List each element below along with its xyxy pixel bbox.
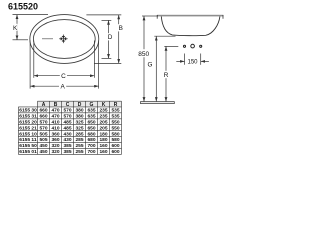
tap hole right <box>200 45 202 47</box>
svg-text:485: 485 <box>63 125 71 131</box>
svg-text:6155 11: 6155 11 <box>19 137 37 143</box>
inner basin ellipse (plan view) <box>33 20 95 59</box>
dimension C extension lines <box>34 41 95 78</box>
label A <box>59 83 66 91</box>
850 dimension top extension <box>142 15 158 17</box>
svg-text:6155 30: 6155 30 <box>19 108 37 114</box>
dimension K line <box>16 15 18 40</box>
svg-text:285: 285 <box>75 137 83 143</box>
svg-text:R: R <box>164 72 169 79</box>
svg-text:485: 485 <box>63 119 71 125</box>
floor bar <box>141 102 175 104</box>
svg-text:A: A <box>42 102 46 108</box>
G dimension line <box>155 36 157 101</box>
outer rim ellipse (plan view) <box>30 15 99 64</box>
table row 6: 6155 11 <box>19 137 120 143</box>
svg-text:K: K <box>13 25 18 32</box>
label C <box>60 72 67 80</box>
svg-text:385: 385 <box>63 143 71 149</box>
dimension D extension lines <box>102 20 112 58</box>
svg-text:6155 21: 6155 21 <box>19 125 37 131</box>
svg-text:320: 320 <box>51 149 59 155</box>
dimension B extension lines <box>86 15 121 64</box>
label 850 <box>136 49 152 58</box>
svg-text:G: G <box>90 102 94 108</box>
dimension C line <box>34 75 95 77</box>
svg-text:660: 660 <box>39 108 47 114</box>
svg-text:150: 150 <box>187 59 198 65</box>
svg-text:570: 570 <box>39 125 47 131</box>
tap hole left <box>183 45 185 47</box>
svg-text:180: 180 <box>99 131 107 137</box>
label 150 <box>187 59 198 65</box>
svg-text:6155 50: 6155 50 <box>19 143 37 149</box>
table row 7: 6155 50 <box>19 143 120 149</box>
svg-text:380: 380 <box>75 108 83 114</box>
svg-text:325: 325 <box>75 119 83 125</box>
svg-text:660: 660 <box>39 113 47 119</box>
countertop (side view) <box>157 15 223 19</box>
svg-text:160: 160 <box>99 149 107 155</box>
svg-text:680: 680 <box>87 137 95 143</box>
svg-text:180: 180 <box>99 137 107 143</box>
svg-text:D: D <box>108 34 113 41</box>
svg-text:680: 680 <box>87 131 95 137</box>
850 dimension line <box>143 16 145 102</box>
centerline dash left of drain <box>42 38 53 40</box>
svg-text:615520: 615520 <box>8 2 38 12</box>
svg-text:570: 570 <box>63 113 71 119</box>
svg-text:6155 10: 6155 10 <box>19 131 37 137</box>
R dimension line <box>165 46 167 101</box>
svg-text:600: 600 <box>111 149 119 155</box>
svg-text:6155 20: 6155 20 <box>19 119 37 125</box>
svg-text:285: 285 <box>75 131 83 137</box>
svg-text:380: 380 <box>75 113 83 119</box>
svg-text:255: 255 <box>75 143 83 149</box>
label R <box>163 71 170 79</box>
svg-text:C: C <box>61 73 66 80</box>
150 dimension arrows <box>176 60 209 62</box>
svg-text:410: 410 <box>51 119 59 125</box>
svg-text:430: 430 <box>63 131 71 137</box>
table row 8: 6155 01 <box>19 149 120 155</box>
title 615520 <box>8 2 38 12</box>
svg-text:450: 450 <box>39 149 47 155</box>
svg-text:255: 255 <box>75 149 83 155</box>
svg-text:450: 450 <box>39 143 47 149</box>
table row 4: 6155 21 <box>19 125 120 131</box>
table row 2: 6155 31 <box>19 113 120 119</box>
table row 1: 6155 30 <box>19 108 120 114</box>
svg-text:K: K <box>102 102 106 108</box>
svg-text:550: 550 <box>111 119 119 125</box>
table row 5: 6155 10 <box>19 131 120 137</box>
dimension A extension lines <box>30 41 99 89</box>
svg-text:650: 650 <box>87 125 95 131</box>
svg-text:700: 700 <box>87 143 95 149</box>
label K <box>12 24 18 32</box>
dimension A line <box>30 85 99 87</box>
label G <box>147 60 154 68</box>
data table grid <box>18 101 121 154</box>
svg-text:635: 635 <box>87 113 95 119</box>
svg-text:470: 470 <box>51 108 59 114</box>
svg-text:360: 360 <box>51 137 59 143</box>
label B <box>117 24 123 32</box>
G dimension top extension (basin bottom level) <box>154 35 175 37</box>
svg-text:570: 570 <box>39 119 47 125</box>
svg-text:650: 650 <box>87 119 95 125</box>
svg-text:570: 570 <box>63 108 71 114</box>
svg-text:160: 160 <box>99 143 107 149</box>
svg-text:325: 325 <box>75 125 83 131</box>
svg-text:535: 535 <box>111 108 119 114</box>
svg-text:580: 580 <box>111 137 119 143</box>
table header letters <box>42 102 118 108</box>
svg-text:205: 205 <box>99 125 107 131</box>
svg-text:R: R <box>114 102 118 108</box>
svg-text:360: 360 <box>51 131 59 137</box>
svg-text:B: B <box>54 102 58 108</box>
R dimension top extension (drain outlet level) <box>164 45 178 47</box>
svg-text:600: 600 <box>111 143 119 149</box>
svg-text:505: 505 <box>39 137 47 143</box>
svg-text:850: 850 <box>138 51 149 58</box>
svg-text:C: C <box>66 102 70 108</box>
dimension B line <box>118 15 120 64</box>
svg-text:470: 470 <box>51 113 59 119</box>
svg-text:320: 320 <box>51 143 59 149</box>
label D <box>107 33 114 41</box>
svg-text:235: 235 <box>99 113 107 119</box>
150 dimension extension ticks <box>185 54 201 65</box>
svg-text:535: 535 <box>111 113 119 119</box>
tap hole center <box>191 44 195 48</box>
svg-text:700: 700 <box>87 149 95 155</box>
dimension K extension lines <box>13 15 49 40</box>
drain symbol <box>59 35 68 44</box>
basin bowl profile (side view) <box>161 16 220 35</box>
svg-text:B: B <box>119 25 123 32</box>
svg-text:6155 01: 6155 01 <box>19 149 37 155</box>
dimension D line <box>108 20 110 58</box>
svg-text:430: 430 <box>63 137 71 143</box>
svg-text:635: 635 <box>87 108 95 114</box>
svg-text:235: 235 <box>99 108 107 114</box>
svg-text:6155 31: 6155 31 <box>19 113 37 119</box>
svg-text:580: 580 <box>111 131 119 137</box>
svg-text:205: 205 <box>99 119 107 125</box>
svg-text:385: 385 <box>63 149 71 155</box>
svg-text:D: D <box>78 102 82 108</box>
svg-text:505: 505 <box>39 131 47 137</box>
table row 3: 6155 20 <box>19 119 120 125</box>
svg-text:G: G <box>148 61 153 68</box>
svg-text:A: A <box>60 84 65 91</box>
svg-text:410: 410 <box>51 125 59 131</box>
svg-text:550: 550 <box>111 125 119 131</box>
